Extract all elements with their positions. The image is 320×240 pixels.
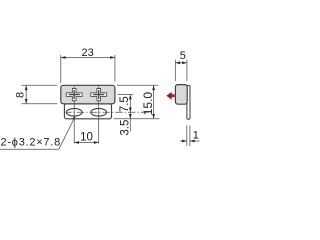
dimension 15.0 line bbox=[153, 85, 155, 119]
front view upper body (grey) bbox=[61, 85, 115, 104]
svg-text:8: 8 bbox=[15, 92, 27, 98]
dimension 5 extension lines bbox=[174, 60, 176, 82]
svg-text:5: 5 bbox=[180, 50, 186, 62]
svg-text:10: 10 bbox=[80, 132, 93, 144]
dimension 8 line bbox=[25, 85, 27, 104]
side view mounting plate bbox=[187, 86, 190, 120]
vertical center line left bbox=[73, 87, 75, 144]
dimension 1 line left bbox=[180, 140, 187, 142]
svg-text:1: 1 bbox=[193, 130, 199, 142]
cross center extension line bbox=[118, 94, 134, 96]
red sensing direction arrow bbox=[166, 92, 174, 100]
dimension 1 line right bbox=[190, 140, 200, 142]
vertical center line right bbox=[98, 87, 100, 144]
dimension 7.5 line bbox=[129, 95, 131, 113]
slot hole right bbox=[91, 108, 107, 116]
dimension 23 extension lines bbox=[60, 55, 62, 83]
top extension line (15.0) bbox=[117, 84, 158, 86]
leader line bbox=[59, 116, 76, 149]
dimension 10 line bbox=[74, 142, 99, 144]
svg-text:7.5: 7.5 bbox=[119, 96, 131, 112]
cross hole left bbox=[66, 89, 82, 101]
bottom extension line (15.0 / 3.5) bbox=[114, 118, 160, 120]
front view lower body (white) bbox=[64, 104, 111, 119]
horizontal slot center line (dash-dot) bbox=[66, 111, 149, 113]
cross hole right bbox=[91, 89, 107, 101]
dimension 5 line bbox=[175, 62, 187, 64]
dimension 23 line bbox=[61, 57, 115, 59]
slot hole left bbox=[66, 108, 82, 116]
svg-text:2-ϕ3.2×7.8: 2-ϕ3.2×7.8 bbox=[1, 136, 61, 148]
side view body (grey) bbox=[175, 85, 187, 105]
svg-text:3.5: 3.5 bbox=[119, 120, 131, 136]
svg-text:15.0: 15.0 bbox=[141, 92, 155, 116]
dimension 3.5 line bbox=[129, 112, 131, 131]
dimension 8 extension lines bbox=[22, 84, 58, 86]
leader underline bbox=[0, 148, 59, 150]
svg-text:23: 23 bbox=[81, 47, 93, 59]
dimension 1 extension lines bbox=[186, 126, 188, 147]
